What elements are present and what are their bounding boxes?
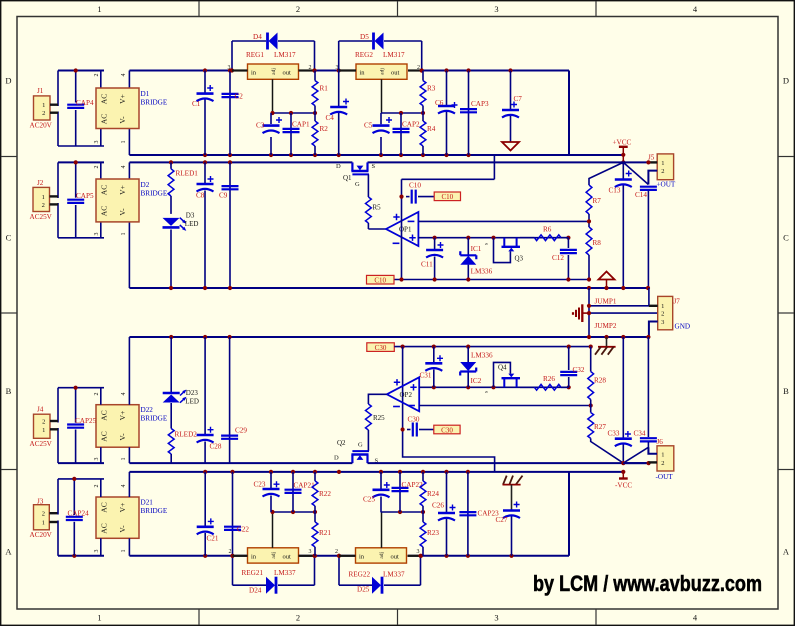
svg-text:C14: C14 [635,191,647,199]
svg-text:J2: J2 [37,179,44,187]
svg-text:C2: C2 [235,93,244,101]
svg-text:out: out [283,70,292,77]
resistor R27 [588,413,624,464]
wire [58,162,104,237]
capacitor C25 [363,472,390,512]
svg-text:3: 3 [494,613,498,623]
resistor R23 [420,512,439,556]
svg-text:2: 2 [94,166,100,169]
svg-text:-VCC: -VCC [615,482,632,490]
svg-text:C: C [783,233,789,243]
svg-text:LED: LED [185,220,199,228]
wire [367,174,369,197]
svg-text:2: 2 [42,511,45,518]
junction dots rail2 [74,160,233,164]
svg-text:C32: C32 [573,366,585,374]
svg-text:2: 2 [661,460,664,467]
capacitor C1 [192,71,214,156]
junction dots rail B [169,286,650,290]
svg-text:V-: V- [118,208,127,216]
svg-text:D1: D1 [141,90,150,98]
svg-text:R2: R2 [320,125,329,133]
power -VCC [615,461,632,490]
svg-text:2: 2 [335,549,338,555]
svg-text:C11: C11 [421,261,433,269]
svg-text:AC25V: AC25V [30,213,53,221]
svg-text:C30: C30 [375,344,387,352]
capacitor C27 [496,502,521,556]
net label C10 lower [367,275,395,284]
svg-text:JUMP2: JUMP2 [595,322,617,330]
capacitor C6 [435,71,458,156]
svg-text:REG22: REG22 [349,571,371,579]
capacitor C32 [560,347,585,388]
svg-text:C27: C27 [496,516,508,524]
capacitor C13 [609,162,632,288]
svg-text:C13: C13 [609,187,621,195]
wire rail4 bottom [58,472,569,556]
svg-text:3: 3 [94,233,100,236]
svg-text:D4: D4 [253,33,262,41]
regulator REG2 LM317 [336,51,421,79]
power +VCC [613,139,632,165]
wire rail C [129,336,649,338]
wire rail3 [58,462,649,464]
svg-text:R23: R23 [427,529,439,537]
connector J1 [30,87,53,130]
svg-text:LM336: LM336 [471,268,493,276]
capacitor CAP25 [67,417,96,428]
wire [101,472,130,556]
resistor R4 [420,113,436,155]
svg-text:1: 1 [661,451,664,458]
svg-text:1: 1 [121,550,127,553]
wire [58,386,104,464]
svg-text:D2: D2 [141,181,150,189]
svg-text:D: D [783,76,789,86]
svg-text:2: 2 [42,419,45,426]
wire rail2 [58,161,648,163]
wire minus line 2 [419,403,593,407]
wire [648,447,657,462]
svg-text:CAP3: CAP3 [471,100,489,108]
svg-text:V+: V+ [118,411,127,421]
capacitor C30 [407,416,434,437]
capacitor C33 [608,337,632,463]
capacitor CAP4 [67,99,94,108]
wire adj1 [270,79,317,115]
power arrow up [599,272,615,289]
junction dots rail4 top [203,470,470,474]
svg-text:AC20V: AC20V [30,122,53,130]
capacitor CAP21 [285,472,316,512]
reference IC2 LM336 [460,347,493,388]
svg-text:C21: C21 [207,535,219,543]
svg-text:C7: C7 [514,95,523,103]
svg-text:R7: R7 [593,197,602,205]
svg-text:REG2: REG2 [355,51,373,59]
svg-text:in: in [251,553,257,560]
svg-text:C22: C22 [237,526,249,534]
svg-text:1: 1 [121,233,127,236]
svg-text:D5: D5 [360,33,369,41]
svg-text:JUMP1: JUMP1 [595,298,617,306]
wire rail Ap [394,345,593,349]
svg-text:Q3: Q3 [515,255,524,263]
svg-text:1: 1 [42,102,45,109]
resistor R5 [366,197,387,229]
diode D24 [249,577,276,595]
svg-text:3: 3 [94,550,100,553]
svg-text:in: in [359,553,365,560]
svg-text:C10: C10 [374,277,386,285]
wire rail A [394,277,589,281]
svg-text:C26: C26 [432,502,444,510]
wire [230,41,317,73]
svg-text:C4: C4 [326,114,335,122]
svg-text:adj: adj [271,551,277,558]
svg-text:C31: C31 [420,372,432,380]
wire [50,105,58,113]
wire C10 loop [399,155,494,199]
node JUMP1 [587,288,649,308]
wire rail4 top [129,471,623,473]
svg-text:C6: C6 [435,99,444,107]
capacitor C29 [221,337,247,463]
svg-text:J3: J3 [37,498,44,506]
regulator REG22 LM337 [335,548,420,579]
wire [129,154,623,156]
svg-text:BRIDGE: BRIDGE [141,507,168,515]
diode D4 [253,33,278,50]
resistor R3 [420,71,436,114]
bridge D22 [94,393,168,461]
capacitor C14 [635,187,657,288]
wire adj2 [381,79,425,115]
capacitor CAP2 [393,113,420,155]
svg-text:3: 3 [417,549,420,555]
resistor R22 [312,472,331,512]
svg-text:R26: R26 [543,375,555,383]
transistor Q4 [484,362,521,393]
svg-text:AC: AC [100,185,109,195]
capacitor C3 [256,113,282,155]
svg-text:AC: AC [100,523,109,533]
wire [337,554,423,586]
svg-text:s: s [484,243,490,245]
svg-text:J1: J1 [37,87,44,95]
svg-text:D: D [336,163,341,170]
connector J2 [30,179,53,221]
svg-text:S: S [372,163,376,170]
svg-text:RLED2: RLED2 [175,431,198,439]
capacitor CAP24 [66,510,89,521]
capacitor C21 [197,472,219,556]
svg-text:V-: V- [118,525,127,533]
ground signal [573,304,589,322]
reference IC1 LM336 [460,238,492,280]
svg-text:R6: R6 [543,226,552,234]
svg-text:C3: C3 [256,122,265,130]
svg-text:A: A [783,547,790,557]
svg-text:C30: C30 [408,416,420,424]
svg-text:2: 2 [661,311,664,318]
wire [58,71,569,156]
capacitor CAP3 [460,71,489,156]
connector J6 [656,438,674,481]
svg-text:LM317: LM317 [274,51,296,59]
capacitor C28 [197,337,222,463]
svg-text:V+: V+ [118,185,127,195]
svg-text:OP2: OP2 [400,391,413,399]
wire J6 node [623,461,650,465]
wire [649,306,658,337]
transistor Q3 [484,238,524,263]
svg-text:CAP1: CAP1 [292,121,310,129]
svg-text:AC: AC [100,94,109,104]
svg-text:IC2: IC2 [471,377,482,385]
svg-text:BRIDGE: BRIDGE [141,99,168,107]
svg-text:4: 4 [121,393,127,396]
svg-text:C10: C10 [441,193,453,201]
svg-text:out: out [391,553,400,560]
svg-text:J6: J6 [657,438,664,446]
wire [58,71,104,147]
svg-text:C28: C28 [210,443,222,451]
capacitor C23 [254,472,280,512]
bridge D21 [94,485,168,553]
svg-text:J7: J7 [674,298,681,306]
wire minus line [418,220,589,222]
junction dots rail1 [74,68,513,72]
connector J4 [30,406,53,448]
svg-text:1: 1 [661,160,664,167]
svg-text:R28: R28 [594,377,606,385]
resistor R26 [520,375,569,390]
wire [588,288,590,337]
capacitor CAP1 [283,113,310,155]
svg-text:D22: D22 [141,406,154,414]
wire [49,513,58,522]
svg-text:REG1: REG1 [246,51,264,59]
connector J5 [648,154,676,189]
svg-text:C34: C34 [634,430,646,438]
bridge D1 [94,74,168,144]
diode D25 [357,577,382,594]
wire [230,554,316,586]
svg-text:D3: D3 [186,212,195,220]
wire [587,311,658,315]
svg-text:R1: R1 [320,85,329,93]
capacitor CAP23 [459,472,499,556]
svg-text:2: 2 [94,74,100,77]
svg-text:R4: R4 [427,125,436,133]
capacitor CAP22 [392,472,424,512]
svg-text:V-: V- [118,116,127,124]
svg-text:+OUT: +OUT [657,181,676,189]
resistor RLED2 [168,403,197,463]
svg-text:Q4: Q4 [498,364,507,372]
svg-text:LED: LED [185,398,199,406]
svg-text:1: 1 [42,194,45,201]
svg-text:1: 1 [121,141,127,144]
svg-text:V-: V- [118,433,127,441]
svg-text:R8: R8 [593,239,602,247]
svg-text:D24: D24 [249,587,262,595]
wire plus line [418,237,568,239]
ground [502,142,519,151]
resistor RLED1 [168,162,198,214]
net label C30 upper [367,343,395,352]
capacitor C10 [406,181,434,203]
svg-text:V+: V+ [118,94,127,104]
svg-text:adj: adj [271,68,277,75]
svg-text:Q2: Q2 [337,439,346,447]
resistor R1 [312,71,328,114]
svg-text:2: 2 [42,202,45,209]
svg-text:AC: AC [100,431,109,441]
svg-text:B: B [783,386,789,396]
wire [50,421,58,429]
net label C10 [434,192,460,201]
svg-text:LM337: LM337 [383,571,405,579]
svg-text:J5: J5 [648,154,655,162]
svg-text:adj: adj [380,68,386,75]
svg-text:D21: D21 [141,499,154,507]
connector J3 [30,498,53,539]
resistor R21 [312,512,331,556]
capacitor C22 [224,472,249,556]
net label C30 [434,425,460,434]
svg-text:2: 2 [296,4,300,14]
svg-text:LM317: LM317 [383,51,405,59]
svg-text:4: 4 [121,74,127,77]
svg-text:1: 1 [97,4,101,14]
svg-text:3: 3 [94,141,100,144]
svg-text:J4: J4 [37,406,44,414]
svg-text:1: 1 [42,427,45,434]
junction dots rail4 bottom [72,554,513,558]
svg-text:CAP24: CAP24 [68,510,90,518]
capacitor C31 [420,347,444,388]
svg-text:3: 3 [494,4,498,14]
svg-text:adj: adj [379,551,385,558]
diode D23 LED [163,337,199,406]
junction dots rail C [169,335,650,339]
wire [50,196,59,204]
svg-text:in: in [360,70,366,77]
transistor Q1 [336,162,376,188]
wire [101,162,130,288]
svg-text:R27: R27 [594,423,606,431]
svg-text:LM336: LM336 [471,352,493,360]
svg-text:+VCC: +VCC [613,139,632,147]
capacitor C34 [623,337,657,463]
svg-text:2: 2 [94,393,100,396]
bridge D2 [94,166,168,236]
svg-text:C12: C12 [552,254,564,262]
svg-text:V+: V+ [118,503,127,513]
svg-text:AC25V: AC25V [30,440,53,448]
svg-text:R24: R24 [427,490,439,498]
svg-text:C33: C33 [608,430,620,438]
wire op1 vplus [401,197,403,280]
node JUMP2 [595,322,617,330]
svg-text:2: 2 [42,110,45,117]
svg-text:B: B [6,386,12,396]
capacitor C8 [196,162,214,288]
capacitor C2 [222,71,244,156]
svg-text:C23: C23 [254,481,266,489]
wire [101,71,130,156]
junction dots rail1 bottom [203,153,471,157]
connector J7 [658,296,690,330]
resistor R6 [520,226,568,241]
svg-text:1: 1 [661,303,664,310]
svg-text:C9: C9 [219,192,228,200]
svg-text:AC: AC [100,410,109,420]
resistor R8 [586,227,601,282]
svg-text:BRIDGE: BRIDGE [141,415,168,423]
svg-text:C30: C30 [441,426,453,434]
svg-text:1: 1 [42,520,45,527]
capacitor C26 [432,472,456,556]
capacitor C11 [421,238,444,280]
svg-text:IC1: IC1 [471,245,482,253]
wire op2 vplus [402,347,404,430]
resistor R2 [312,113,328,155]
diode D5 [360,33,384,50]
svg-text:AC: AC [100,502,109,512]
svg-text:C25: C25 [363,496,375,504]
svg-text:REG21: REG21 [242,569,264,577]
svg-text:LM337: LM337 [274,569,296,577]
svg-text:R22: R22 [319,490,331,498]
capacitor C7 [502,71,522,143]
svg-text:D23: D23 [186,389,199,397]
svg-text:3: 3 [309,549,312,555]
svg-text:CAP21: CAP21 [294,482,316,490]
wire [101,337,130,463]
svg-text:2: 2 [661,168,664,175]
resistor R24 [420,472,439,512]
svg-text:CAP2: CAP2 [402,121,420,129]
svg-text:C8: C8 [196,192,205,200]
svg-text:GND: GND [675,323,691,331]
resistor R28 [588,347,607,413]
svg-text:A: A [5,547,12,557]
wire R7 diag [589,162,623,185]
svg-text:out: out [391,70,400,77]
svg-text:CAP25: CAP25 [75,417,97,425]
svg-text:Q1: Q1 [343,174,352,182]
wire C30 loop [401,427,495,472]
svg-text:D25: D25 [357,586,370,594]
svg-text:AC20V: AC20V [30,531,53,539]
svg-text:BRIDGE: BRIDGE [141,190,168,198]
svg-text:by LCM / www.avbuzz.com: by LCM / www.avbuzz.com [533,571,762,596]
wire [646,160,657,184]
svg-text:G: G [355,181,360,188]
op-amp OP2 [387,377,419,411]
svg-text:2: 2 [296,613,300,623]
svg-text:3: 3 [94,458,100,461]
ground earth [503,476,523,509]
wire C14 diag [623,162,648,184]
diode D3 LED [163,212,199,289]
svg-text:CAP5: CAP5 [76,192,94,200]
svg-text:R21: R21 [319,529,331,537]
